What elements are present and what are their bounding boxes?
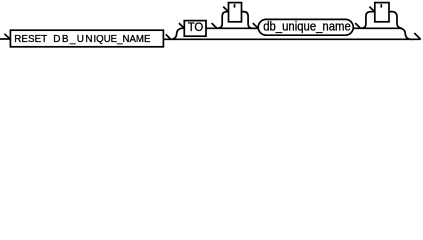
wire upper line from oval to right descent: [353, 27, 400, 29]
box quote 1: [229, 3, 242, 22]
wire rise to TO box: [171, 28, 184, 39]
wire hump fall from quote box 2: [389, 12, 402, 29]
arrowhead after RESET box: [166, 34, 171, 39]
end arrowhead: [414, 33, 421, 39]
box TO: [184, 21, 206, 37]
quote tick 1: [234, 4, 236, 8]
wire hump rise to quote box 1: [218, 12, 229, 29]
arrowhead after oval: [355, 23, 360, 28]
wire hump fall from quote box 1: [242, 12, 256, 29]
box quote 2: [375, 3, 389, 22]
wire bypass line from RESET box to end: [163, 38, 420, 40]
box RESET DB_UNIQUE_NAME: [10, 30, 163, 47]
oval db_unique_name: [258, 19, 353, 35]
arrowhead after TO box: [212, 23, 217, 28]
svg-text:DB_UN: DB_UN: [53, 34, 92, 45]
background: [0, 0, 423, 53]
arrowhead into quote box 2: [369, 7, 374, 12]
svg-text:IQUE_NAME: IQUE_NAME: [94, 34, 151, 45]
svg-text:db_unique_name: db_unique_name: [263, 20, 351, 34]
arrowhead into TO box: [179, 23, 184, 28]
arrowhead into oval: [253, 23, 258, 28]
start wire into RESET box: [0, 38, 10, 40]
start arrowhead: [5, 34, 10, 39]
wire upper line from TO to oval: [206, 27, 258, 29]
wire right descent to bypass line: [400, 28, 413, 39]
arrowhead into quote box 1: [223, 7, 228, 12]
svg-text:RESET: RESET: [14, 34, 47, 45]
quote tick 2: [380, 4, 382, 8]
wire hump rise to quote box 2: [361, 12, 374, 29]
svg-text:TO: TO: [188, 20, 204, 34]
